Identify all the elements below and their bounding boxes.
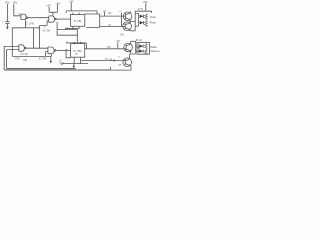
svg-text:(74): (74) (23, 59, 27, 62)
svg-text:+5V: +5V (55, 1, 60, 5)
svg-text:GA: GA (118, 64, 122, 67)
svg-text:(74): (74) (59, 63, 63, 65)
svg-text:+5V: +5V (12, 0, 17, 4)
svg-text:Q: Q (118, 57, 120, 59)
svg-text:(7): (7) (105, 58, 108, 61)
svg-text:+5V: +5V (69, 0, 74, 3)
svg-text:+: + (2, 21, 4, 24)
svg-text:+5V: +5V (143, 0, 148, 4)
svg-text:+5V: +5V (4, 0, 9, 4)
svg-text:R5: R5 (107, 46, 111, 49)
svg-text:(4): (4) (75, 54, 78, 56)
svg-text:IC (74): IC (74) (25, 21, 34, 25)
svg-text:R1: R1 (108, 12, 112, 15)
svg-text:+5V: +5V (116, 40, 121, 43)
svg-text:IC (74): IC (74) (39, 58, 47, 61)
svg-text:IC (74): IC (74) (21, 53, 29, 56)
svg-text:R (7): R (7) (138, 8, 144, 11)
svg-text:Pitch: Pitch (150, 21, 157, 25)
svg-text:IC (7B): IC (7B) (74, 20, 82, 23)
svg-text:Q4: Q4 (109, 58, 113, 61)
svg-text:Volume: Volume (150, 49, 160, 53)
svg-text:R2: R2 (108, 24, 112, 27)
svg-text:+5: +5 (103, 9, 107, 13)
svg-text:GA: GA (120, 34, 124, 37)
svg-text:(74): (74) (15, 58, 20, 61)
svg-text:Note: Note (150, 15, 156, 19)
svg-text:+5V: +5V (46, 4, 51, 8)
svg-text:IC (74): IC (74) (43, 29, 51, 32)
svg-text:DI (4): DI (4) (136, 39, 142, 42)
svg-text:IC (7B): IC (7B) (73, 49, 81, 53)
